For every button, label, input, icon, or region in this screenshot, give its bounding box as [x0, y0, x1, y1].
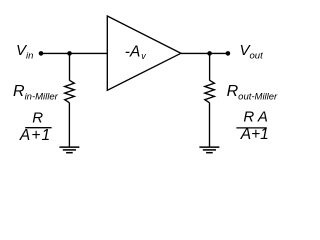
wire R_in-Miller to ground	[68, 103, 70, 147]
node Vout terminal dot	[226, 51, 231, 56]
svg-text:A+1: A+1	[240, 126, 269, 143]
svg-text:Rin-Miller: Rin-Miller	[13, 83, 59, 102]
ground (right)	[199, 147, 219, 153]
wire junction B down to R_out-Miller	[209, 53, 211, 80]
op-amp U1 (-Av)	[107, 16, 181, 90]
svg-text:-Av: -Av	[125, 44, 146, 61]
wire amplifier output to Vout	[181, 52, 228, 54]
svg-text:Vin: Vin	[16, 42, 33, 61]
node B junction (output / R_out-Miller)	[207, 51, 212, 56]
resistor R_out-Miller	[205, 80, 215, 103]
wire R_out-Miller to ground	[209, 103, 211, 147]
node Vin terminal dot	[39, 51, 44, 56]
node A junction (input / R_in-Miller)	[67, 51, 72, 56]
label fraction R/(A+1)	[19, 110, 52, 144]
svg-text:Rout-Miller: Rout-Miller	[227, 83, 278, 102]
svg-text:R: R	[32, 110, 43, 127]
wire Vin to amplifier input	[41, 52, 107, 54]
svg-text:Vout: Vout	[240, 42, 264, 61]
ground (left)	[59, 147, 79, 153]
svg-text:A+1: A+1	[19, 127, 51, 144]
resistor R_in-Miller	[65, 80, 75, 103]
wire junction A down to R_in-Miller	[69, 53, 71, 80]
label fraction RA/(A+1)	[236, 108, 268, 143]
svg-text:R A: R A	[243, 108, 267, 125]
